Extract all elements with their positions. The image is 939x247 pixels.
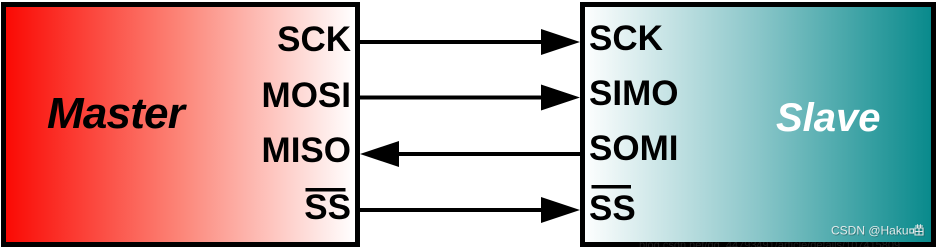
svg-text:CSDN @Haku: CSDN @Haku (831, 224, 909, 238)
svg-text:blog.csdn.net/qq_44793491/arti: blog.csdn.net/qq_44793491/article/detail… (639, 240, 900, 247)
